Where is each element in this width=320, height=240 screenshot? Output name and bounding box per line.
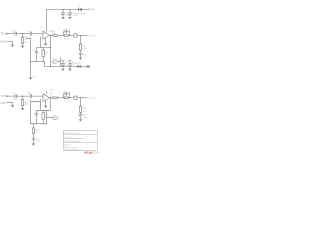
wire U1A output down xyxy=(50,36,52,67)
svg-text:D3: D3 xyxy=(78,6,82,8)
svg-text:100n: 100n xyxy=(13,32,17,34)
node junction feedback xyxy=(50,47,51,48)
svg-text:R8: R8 xyxy=(28,93,32,95)
wire feedback U1A xyxy=(37,37,51,48)
node junction mid rail 1 xyxy=(50,66,51,67)
ground under C13 xyxy=(79,119,83,122)
resistor R3 xyxy=(42,48,49,62)
svg-text:MBR0520L: MBR0520L xyxy=(75,14,86,16)
resistor R2 xyxy=(21,34,28,46)
svg-text:+5V: +5V xyxy=(90,7,95,11)
ground at GND port lower xyxy=(11,105,15,108)
svg-text:C5 100p: C5 100p xyxy=(62,29,70,31)
capacitor C5 parallel top xyxy=(62,29,71,35)
svg-text:100k: 100k xyxy=(82,110,86,112)
wire TP1 to C1 xyxy=(7,33,15,35)
svg-text:REF: REF xyxy=(53,61,56,63)
svg-text:12-05-07 A (sch): 12-05-07 A (sch) xyxy=(64,132,79,135)
resistor R5 parallel bottom xyxy=(64,35,70,41)
node junction out B xyxy=(80,97,81,98)
svg-text:1u: 1u xyxy=(65,64,67,66)
capacitor C8 xyxy=(61,61,69,69)
ferrite bead FB2 xyxy=(70,96,88,99)
capacitor C6 xyxy=(79,53,88,58)
svg-text:R5 1k: R5 1k xyxy=(64,38,69,40)
capacitor C12 parallel top xyxy=(62,92,72,98)
svg-text:C2: C2 xyxy=(32,50,35,52)
resistor R4 xyxy=(50,31,62,37)
svg-text:REF: REF xyxy=(53,118,56,120)
ground under R7 xyxy=(21,108,25,111)
node TP2 xyxy=(0,95,7,98)
svg-text:U1B: U1B xyxy=(50,90,55,92)
svg-text:Rev 1.0: Rev 1.0 xyxy=(64,137,72,139)
svg-text:OUT1: OUT1 xyxy=(90,36,97,38)
svg-text:VR: VR xyxy=(33,76,36,78)
resistor R8 xyxy=(28,93,33,101)
capacitor C1 xyxy=(13,30,17,36)
svg-text:100n: 100n xyxy=(83,117,87,119)
node arrow port right of D1 xyxy=(86,65,90,67)
svg-text:100k: 100k xyxy=(82,48,86,50)
title block frame xyxy=(63,131,97,151)
ferrite bead FB1 xyxy=(70,34,88,37)
ground under C9 xyxy=(68,69,72,72)
op-amp U1A xyxy=(40,27,54,39)
svg-text:MCP6022 preamp: MCP6022 preamp xyxy=(64,141,81,143)
svg-text:OUT2: OUT2 xyxy=(90,98,97,100)
pin V- of U1A xyxy=(45,38,47,43)
title block text xyxy=(64,132,81,151)
ground at GND port upper xyxy=(11,45,15,48)
node junction output U1B xyxy=(50,97,51,98)
resistor R13 xyxy=(79,98,87,115)
wire feedback U1B xyxy=(37,99,51,110)
svg-text:D1 BAT54: D1 BAT54 xyxy=(72,62,82,65)
node TP1 xyxy=(0,33,7,36)
svg-text:R1: R1 xyxy=(28,31,32,33)
node +5V label xyxy=(89,7,95,11)
ground at U1A V- xyxy=(44,43,48,46)
node GND port upper xyxy=(0,41,12,45)
ground under C3 xyxy=(61,17,65,19)
resistor R10 chain xyxy=(32,124,40,138)
wire oval drop xyxy=(60,58,62,67)
resistor R9 xyxy=(42,110,49,124)
ground under C8 xyxy=(61,69,65,72)
svg-text:100n: 100n xyxy=(13,99,17,101)
svg-text:C12 100p: C12 100p xyxy=(62,92,72,94)
node junction at R7 xyxy=(22,96,23,97)
svg-text:GND: GND xyxy=(0,102,6,105)
resistor R11 xyxy=(50,93,62,99)
svg-text:100n: 100n xyxy=(36,141,40,143)
pin V- of U1B xyxy=(45,100,47,105)
node junction on +5V rail at C4 xyxy=(69,9,70,10)
svg-text:1k: 1k xyxy=(45,54,47,56)
capacitor C4 xyxy=(68,10,78,17)
node junction at R2 xyxy=(22,33,23,34)
svg-text:10k: 10k xyxy=(28,99,32,101)
node junction out A xyxy=(80,35,81,36)
wire lower block rails xyxy=(31,101,47,124)
svg-text:Title: mic preamp ch: Title: mic preamp ch xyxy=(64,148,81,151)
node net oval label REF lower xyxy=(47,116,59,120)
svg-text:E.D.A.: E.D.A. xyxy=(92,151,100,155)
svg-text:C7: C7 xyxy=(13,93,16,95)
resistor R6 xyxy=(79,36,86,53)
node GND port lower xyxy=(0,102,12,105)
svg-text:R12 1k: R12 1k xyxy=(64,101,70,103)
wire C1 to opamp xyxy=(16,33,43,35)
capacitor C11 chain xyxy=(32,138,41,143)
capacitor C3 xyxy=(61,10,71,17)
svg-text:C10: C10 xyxy=(25,102,30,104)
wire bias line xyxy=(24,37,31,77)
capacitor C2 xyxy=(32,48,38,62)
svg-text:GND: GND xyxy=(0,41,6,44)
wire C7 to opamp xyxy=(16,95,43,97)
svg-text:U1: U1 xyxy=(40,27,44,29)
ground under C4 xyxy=(68,17,72,19)
wire TP2 to C7 xyxy=(7,95,15,97)
capacitor C10 xyxy=(25,102,39,124)
wire diode row xyxy=(70,66,86,68)
diode D1 xyxy=(72,62,82,68)
capacitor C9 xyxy=(68,61,76,69)
node junction output U1A xyxy=(50,35,51,36)
node junction mid rail 2 xyxy=(62,66,63,67)
node out label B xyxy=(87,98,96,100)
ground at bias line xyxy=(29,76,36,80)
wire mid ground rail xyxy=(45,66,71,68)
wire block bottom rail xyxy=(31,62,45,67)
node net oval label REF xyxy=(52,60,61,64)
resistor R7 xyxy=(21,96,28,108)
svg-text:TP2: TP2 xyxy=(0,95,5,98)
ground under R2 xyxy=(21,46,25,49)
node KiCad footer logo xyxy=(84,151,100,155)
op-amp U1B xyxy=(43,90,55,102)
svg-text:TP1: TP1 xyxy=(0,33,5,36)
wire U1B output down xyxy=(50,98,52,111)
svg-text:1k: 1k xyxy=(36,132,38,134)
capacitor C13 xyxy=(79,115,88,120)
resistor R12 parallel bottom xyxy=(64,97,71,103)
svg-text:100n: 100n xyxy=(83,56,87,58)
ground under C11 xyxy=(32,143,36,146)
resistor R1 xyxy=(28,31,33,40)
diode D3 on +5V rail xyxy=(75,6,86,16)
node out label A xyxy=(87,36,96,38)
node junction on +5V rail at C3 xyxy=(62,9,63,10)
svg-text:1M: 1M xyxy=(24,41,27,43)
ground under C6 xyxy=(79,57,83,60)
wire +5V top rail xyxy=(47,10,90,32)
ground at U1B V- xyxy=(44,106,48,109)
capacitor C7 xyxy=(13,93,18,101)
